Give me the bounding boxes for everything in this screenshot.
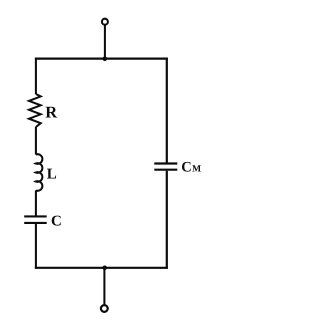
svg-text:C: C (51, 213, 62, 229)
svg-text:CM: CM (181, 160, 201, 176)
wire: right branch upper (166, 58, 168, 163)
wire: bottom horizontal bus (35, 267, 168, 269)
terminal T2 (bottom) (101, 305, 108, 312)
svg-text:L: L (47, 166, 57, 182)
wire: L to C (35, 190, 37, 215)
wire: R to L (35, 127, 37, 155)
junction: bottom node (102, 266, 107, 271)
svg-text:R: R (45, 102, 58, 121)
wire: C to bottom bus (35, 224, 37, 269)
capacitor C (plates) (24, 216, 47, 223)
resistor R (29, 94, 41, 127)
wire: left branch upper (35, 58, 37, 95)
wire: bottom terminal stem (103, 268, 105, 305)
terminal T1 (top) (102, 19, 108, 25)
wire: top horizontal bus (35, 57, 168, 59)
wire: top terminal stem (104, 25, 106, 58)
junction: top node (103, 57, 108, 62)
wire: right branch lower (166, 171, 168, 269)
capacitor CM (plates) (154, 164, 177, 170)
inductor L (36, 154, 42, 191)
